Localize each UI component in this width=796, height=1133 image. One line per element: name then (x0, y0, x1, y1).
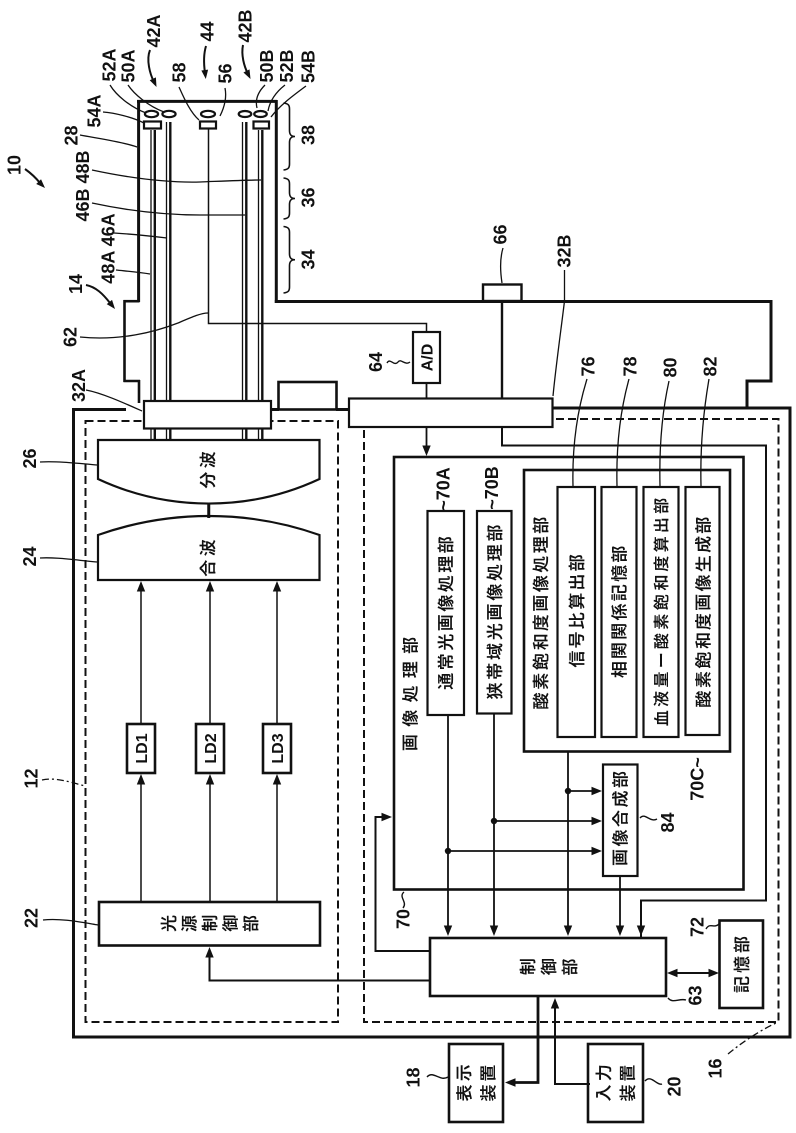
oxygen saturation image generator box 82 (686, 487, 720, 735)
wire 70C output down to controller (567, 752, 569, 933)
wire controller to display device (510, 996, 538, 1083)
svg-text:LD3: LD3 (270, 733, 287, 763)
outer housing box bottom edge (72, 1036, 790, 1039)
light guide end 54A (rect) (144, 122, 161, 129)
universal cord top line (275, 300, 773, 303)
svg-text:32A: 32A (69, 369, 89, 402)
svg-text:64: 64 (366, 352, 386, 372)
laser diode LD3 box (263, 724, 291, 773)
brace for distal end section 38 (284, 103, 296, 170)
beam combiner 24 (gouha) (98, 516, 320, 580)
svg-text:16: 16 (705, 1058, 725, 1078)
observation lens 58 (ellipse) (201, 111, 215, 117)
svg-text:78: 78 (620, 356, 640, 376)
wire LD1 up into combiner (140, 588, 142, 724)
laser diode LD2 box (196, 724, 224, 773)
light guide end 54B (rect) (254, 122, 270, 129)
svg-text:LD2: LD2 (203, 733, 220, 763)
light guide fiber 46A (pair of lines) (166, 122, 168, 401)
svg-text:48A 46A: 48A 46A (98, 213, 118, 283)
oxygen saturation image processor box 70C (524, 470, 730, 752)
svg-text:A/D: A/D (419, 344, 436, 372)
brace for bending section 36 (284, 178, 296, 219)
signal line 62 from image sensor (209, 129, 427, 333)
A/D converter box 64 (413, 332, 440, 383)
svg-text:44: 44 (197, 21, 217, 41)
wire light source controller to LD3 (276, 780, 278, 902)
wire scope signal to A/D and into image processor (426, 383, 428, 399)
wire light source controller to LD1 (140, 780, 142, 902)
svg-text:22: 22 (21, 908, 41, 928)
svg-text:14: 14 (66, 274, 86, 294)
svg-text:36: 36 (298, 187, 318, 207)
svg-text:12: 12 (21, 768, 41, 788)
memory box 72 (720, 921, 764, 1009)
signal ratio calculator box 76 (558, 487, 596, 737)
svg-text:32B: 32B (554, 234, 574, 267)
svg-text:84: 84 (658, 812, 678, 832)
wire LD2 up into combiner (209, 588, 211, 724)
link between splitter and combiner (207, 504, 210, 518)
junction dot on 70A output (445, 848, 451, 854)
svg-text:62: 62 (60, 327, 80, 347)
svg-text:82: 82 (700, 356, 720, 376)
svg-text:70: 70 (393, 909, 413, 929)
svg-text:52A: 52A (99, 48, 119, 81)
junction dot on 70B output (491, 818, 497, 824)
image sensor 56 (rect) (200, 122, 216, 129)
wire light source controller to LD2 (209, 780, 211, 902)
svg-text:20: 20 (664, 1076, 684, 1096)
svg-text:80: 80 (660, 357, 680, 377)
wire 70A branch to image composer (448, 850, 596, 852)
svg-text:26: 26 (20, 448, 40, 468)
svg-text:34: 34 (298, 249, 318, 269)
scope body step (label 14 region) (124, 300, 140, 303)
wire controller to light source controller (210, 952, 431, 981)
normal light image processor box 70A (428, 511, 465, 715)
connector bar 32B (349, 399, 553, 428)
brace for insertion section 34 (284, 227, 296, 294)
svg-text:58: 58 (169, 62, 189, 82)
svg-text:~70B: ~70B (482, 466, 502, 510)
laser diode LD1 box (127, 724, 155, 773)
illumination lens 50A (ellipse) (145, 111, 158, 117)
narrow band light image processor box 70B (477, 511, 512, 714)
svg-text:54B: 54B (298, 50, 318, 83)
wire input device to controller (555, 1003, 590, 1084)
light guide fiber 46B (pair of lines) (242, 122, 244, 401)
svg-text:63: 63 (685, 985, 705, 1005)
svg-text:72: 72 (687, 917, 707, 937)
svg-text:54A: 54A (84, 94, 104, 127)
image composer box 84 (603, 765, 638, 877)
svg-text:38: 38 (298, 125, 318, 145)
correlation memory box 78 (602, 487, 637, 737)
small housing box on top edge (279, 382, 337, 410)
svg-text:42B: 42B (235, 9, 255, 42)
svg-text:10: 10 (4, 155, 24, 175)
wire LD3 up into combiner (276, 588, 278, 724)
svg-text:50A: 50A (118, 49, 138, 82)
input device box 20 (588, 1044, 643, 1122)
dashed box light source unit 12 (86, 421, 339, 1022)
universal cord right bend into housing (770, 300, 773, 383)
dashed box processor unit 16 (364, 419, 779, 1022)
light source controller box 22 (99, 902, 320, 946)
svg-text:18: 18 (403, 1067, 423, 1087)
blood volume-oxygen saturation calculator box 80 (644, 487, 679, 737)
wire 70A output down to controller (447, 715, 449, 932)
wire controller to image processing unit (376, 817, 431, 951)
light guide fiber 48B (pair of lines) (258, 130, 260, 401)
illumination lens 50B (ellipse) (239, 111, 252, 117)
wire 70C branch to image composer (568, 790, 596, 792)
image processing unit box 70 (394, 457, 744, 890)
outer housing box top edge segments (72, 408, 126, 411)
svg-text:LD1: LD1 (134, 733, 151, 763)
display device box 18 (449, 1044, 503, 1122)
scope distal section outline (137, 100, 277, 103)
svg-text:70C~: 70C~ (687, 757, 707, 801)
junction dot on 70C output (565, 788, 571, 794)
svg-text:52B: 52B (277, 49, 297, 82)
svg-text:50B: 50B (257, 49, 277, 82)
svg-text:76: 76 (578, 356, 598, 376)
controller box 63 (430, 938, 666, 996)
illumination lens 52A (ellipse) (162, 111, 175, 117)
svg-text:24: 24 (20, 546, 40, 566)
svg-text:66: 66 (490, 224, 510, 244)
svg-text:28: 28 (61, 125, 81, 145)
wire 70B output down to controller (493, 714, 495, 933)
beam splitter 26 (bunpa) (98, 440, 320, 504)
wire from tab 66 down to connector 32B (501, 301, 503, 399)
connector tab 66 box (483, 285, 522, 302)
wire 70B branch to image composer (494, 820, 596, 822)
svg-text:46B 48B: 46B 48B (73, 150, 93, 221)
wire image composer down to controller (619, 876, 621, 932)
connector bar 32A (144, 401, 271, 429)
svg-text:~70A: ~70A (433, 467, 453, 511)
double arrow controller-memory (672, 972, 714, 974)
outer housing box left edge (72, 409, 75, 1037)
illumination lens 52B (ellipse) (254, 111, 267, 117)
svg-text:42A: 42A (144, 14, 164, 47)
outer housing box right edge (789, 407, 792, 1039)
light guide fiber 48A (pair of lines) (150, 130, 152, 401)
wire from connector 32B around image processor to controller (502, 427, 766, 947)
svg-text:56: 56 (215, 63, 235, 83)
